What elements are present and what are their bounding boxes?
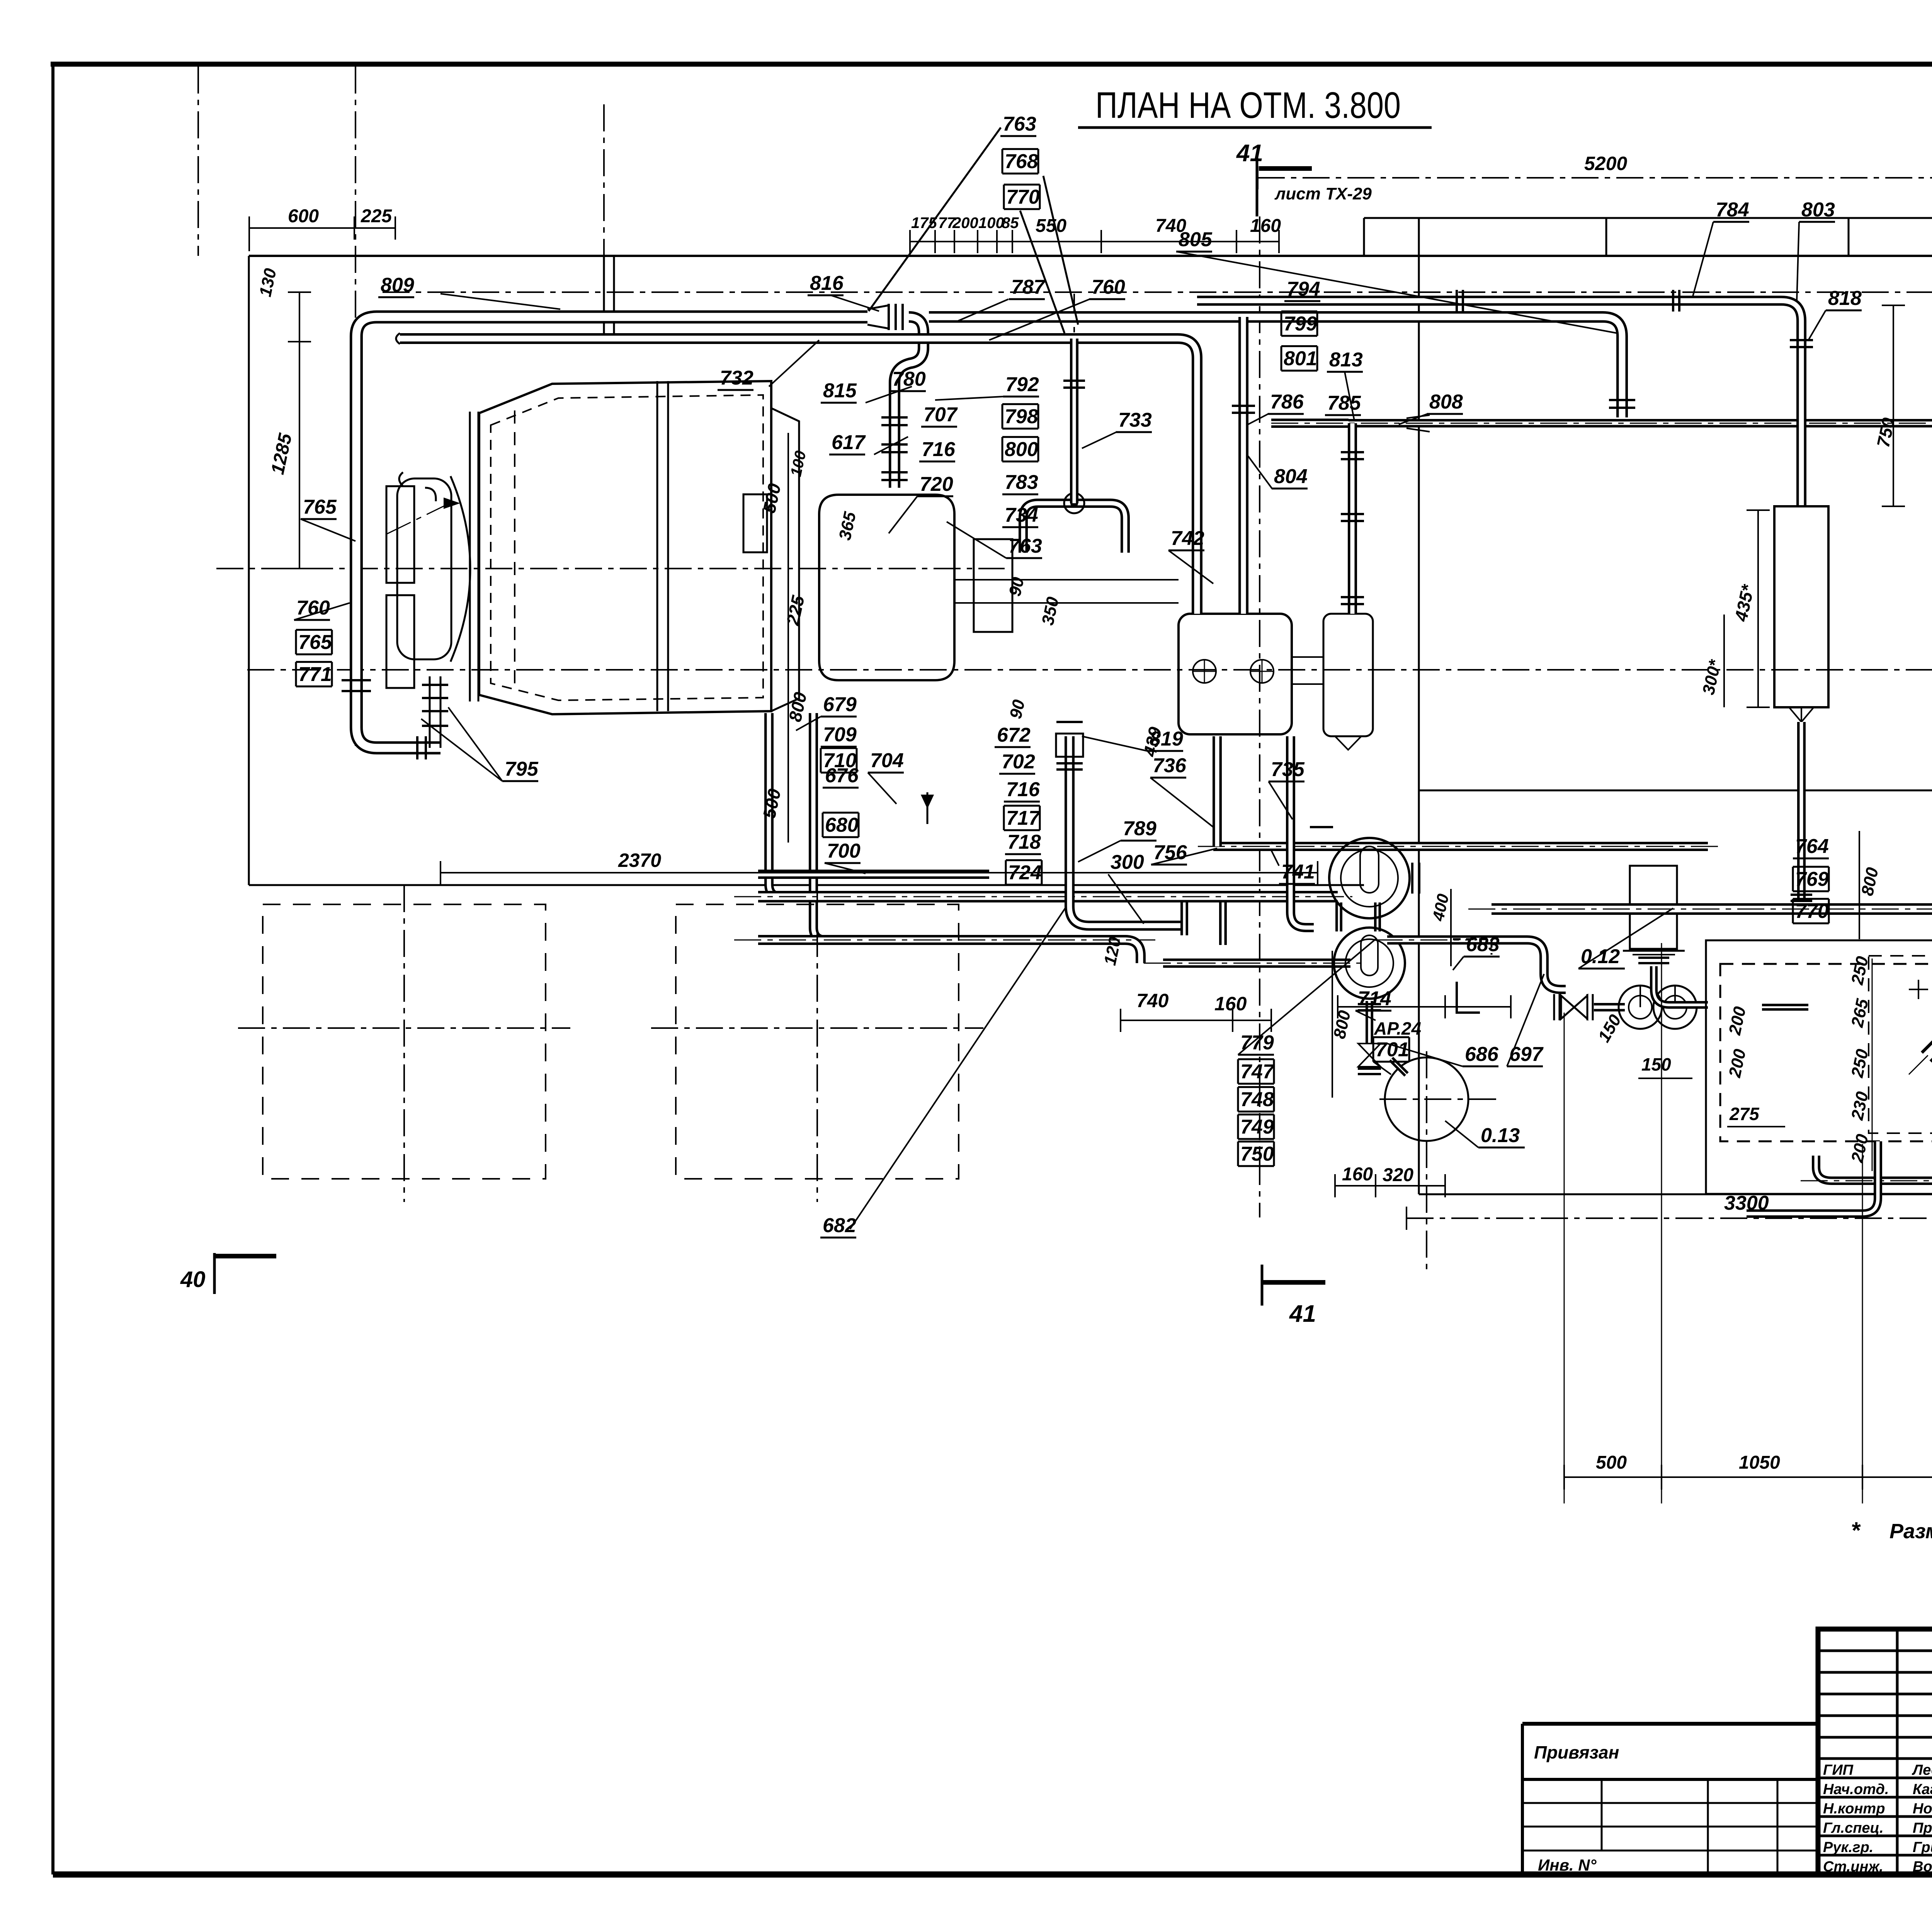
- svg-text:150: 150: [1641, 1054, 1671, 1074]
- svg-text:Леонов: Леонов: [1912, 1762, 1932, 1778]
- svg-text:720: 720: [920, 473, 953, 495]
- svg-text:716: 716: [1006, 778, 1040, 801]
- svg-text:85: 85: [1002, 215, 1019, 232]
- svg-text:160: 160: [1250, 216, 1281, 236]
- svg-text:683: 683: [1466, 933, 1500, 956]
- svg-text:Рук.гр.: Рук.гр.: [1823, 1839, 1873, 1856]
- svg-text:816: 816: [810, 272, 844, 295]
- svg-text:804: 804: [1274, 465, 1308, 488]
- svg-text:734: 734: [1005, 504, 1038, 526]
- svg-text:792: 792: [1005, 373, 1039, 396]
- svg-text:Новицкая: Новицкая: [1913, 1801, 1932, 1817]
- svg-text:808: 808: [1429, 391, 1463, 413]
- svg-text:798: 798: [1005, 405, 1038, 428]
- svg-text:799: 799: [1284, 313, 1317, 335]
- svg-text:789: 789: [1123, 817, 1156, 840]
- svg-text:740: 740: [1155, 216, 1186, 236]
- svg-text:40: 40: [180, 1267, 206, 1292]
- svg-text:676: 676: [825, 764, 859, 787]
- svg-text:2370: 2370: [618, 850, 661, 871]
- svg-text:0.12: 0.12: [1581, 945, 1620, 968]
- svg-text:800: 800: [1005, 438, 1038, 461]
- svg-text:740: 740: [1136, 990, 1169, 1011]
- svg-text:500: 500: [1596, 1452, 1627, 1473]
- svg-text:765: 765: [303, 496, 337, 518]
- svg-text:3300: 3300: [1724, 1192, 1769, 1214]
- svg-text:160: 160: [1342, 1164, 1373, 1185]
- svg-text:679: 679: [823, 693, 857, 716]
- svg-text:815: 815: [823, 380, 857, 402]
- svg-text:749: 749: [1240, 1116, 1274, 1138]
- svg-text:769: 769: [1795, 868, 1829, 890]
- svg-text:550: 550: [1036, 216, 1066, 236]
- svg-text:Нач.отд.: Нач.отд.: [1823, 1781, 1889, 1798]
- svg-text:717: 717: [1006, 807, 1041, 829]
- svg-text:Привязан: Привязан: [1534, 1742, 1619, 1762]
- svg-text:600: 600: [288, 206, 319, 226]
- svg-text:701: 701: [1376, 1039, 1409, 1061]
- svg-text:5200: 5200: [1584, 153, 1627, 174]
- svg-text:742: 742: [1171, 527, 1204, 550]
- svg-text:735: 735: [1271, 758, 1305, 781]
- svg-text:770: 770: [1795, 900, 1829, 923]
- svg-text:Каган: Каган: [1913, 1781, 1932, 1798]
- svg-text:718: 718: [1007, 831, 1041, 853]
- svg-text:1050: 1050: [1739, 1452, 1780, 1473]
- svg-text:41: 41: [1289, 1301, 1316, 1327]
- svg-text:702: 702: [1002, 751, 1035, 773]
- svg-text:716: 716: [922, 438, 956, 461]
- svg-text:704: 704: [870, 749, 904, 772]
- svg-text:760: 760: [296, 597, 330, 619]
- svg-text:Н.контр: Н.контр: [1823, 1801, 1885, 1817]
- svg-text:809: 809: [381, 274, 414, 296]
- svg-text:*: *: [1851, 1517, 1861, 1543]
- svg-text:795: 795: [505, 758, 539, 780]
- svg-text:709: 709: [823, 724, 857, 746]
- svg-text:771: 771: [298, 663, 332, 686]
- svg-text:784: 784: [1716, 199, 1749, 221]
- svg-text:Григорьян: Григорьян: [1913, 1839, 1932, 1856]
- svg-text:763: 763: [1009, 535, 1042, 557]
- svg-text:763: 763: [1003, 113, 1036, 135]
- svg-text:617: 617: [832, 431, 866, 454]
- svg-text:748: 748: [1240, 1088, 1274, 1111]
- svg-text:750: 750: [1240, 1143, 1274, 1165]
- svg-text:747: 747: [1240, 1061, 1275, 1083]
- svg-text:160: 160: [1214, 993, 1247, 1015]
- svg-text:ПЛАН НА ОТМ. 3.800: ПЛАН НА ОТМ. 3.800: [1095, 85, 1401, 126]
- svg-text:764: 764: [1795, 835, 1829, 858]
- svg-text:0.13: 0.13: [1481, 1124, 1520, 1147]
- svg-text:733: 733: [1118, 409, 1152, 431]
- svg-text:780: 780: [892, 368, 926, 390]
- svg-text:АР.24: АР.24: [1374, 1018, 1421, 1039]
- svg-text:760: 760: [1092, 276, 1125, 298]
- svg-text:707: 707: [923, 403, 958, 426]
- svg-text:787: 787: [1011, 276, 1046, 298]
- svg-text:770: 770: [1006, 186, 1040, 208]
- svg-text:41: 41: [1236, 140, 1263, 167]
- svg-text:700: 700: [827, 840, 861, 862]
- svg-text:Размеры для справок: Размеры для справок: [1889, 1520, 1932, 1543]
- svg-text:200: 200: [952, 215, 978, 232]
- svg-text:680: 680: [825, 814, 859, 836]
- svg-text:686: 686: [1465, 1043, 1499, 1066]
- svg-text:801: 801: [1284, 347, 1317, 370]
- svg-text:818: 818: [1828, 287, 1862, 310]
- svg-text:Преснов: Преснов: [1913, 1820, 1932, 1836]
- svg-text:ГИП: ГИП: [1823, 1762, 1854, 1778]
- svg-text:768: 768: [1005, 150, 1038, 173]
- svg-text:Гл.спец.: Гл.спец.: [1823, 1820, 1884, 1836]
- svg-text:Инв. N°: Инв. N°: [1538, 1856, 1597, 1874]
- svg-text:Восводина: Восводина: [1913, 1859, 1932, 1875]
- svg-text:732: 732: [720, 367, 753, 389]
- svg-text:786: 786: [1270, 391, 1304, 413]
- svg-text:785: 785: [1327, 392, 1361, 414]
- svg-text:Ст.инж.: Ст.инж.: [1823, 1859, 1883, 1875]
- svg-text:275: 275: [1729, 1104, 1760, 1124]
- svg-text:320: 320: [1383, 1165, 1413, 1185]
- svg-text:100: 100: [978, 215, 1004, 232]
- svg-text:175: 175: [911, 215, 937, 232]
- svg-text:765: 765: [298, 631, 332, 654]
- svg-text:779: 779: [1240, 1032, 1274, 1054]
- svg-text:803: 803: [1801, 199, 1835, 221]
- svg-text:225: 225: [361, 206, 392, 226]
- svg-text:300: 300: [1111, 851, 1144, 873]
- svg-text:794: 794: [1287, 278, 1320, 300]
- svg-text:783: 783: [1005, 471, 1038, 494]
- svg-text:813: 813: [1329, 349, 1363, 371]
- svg-text:682: 682: [823, 1214, 856, 1237]
- svg-text:672: 672: [997, 724, 1031, 746]
- svg-text:лист ТХ-29: лист ТХ-29: [1274, 184, 1372, 203]
